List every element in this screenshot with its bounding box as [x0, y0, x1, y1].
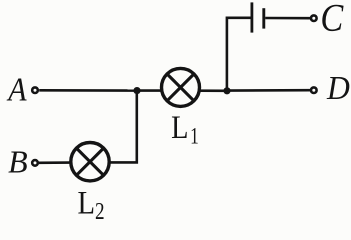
wire battery to C	[265, 17, 310, 20]
node junction2	[223, 87, 230, 94]
node B (terminal)	[32, 160, 38, 166]
node A (terminal)	[32, 87, 38, 93]
label C	[320, 0, 343, 39]
svg-text:1: 1	[190, 124, 199, 149]
svg-text:B: B	[8, 143, 28, 179]
svg-text:L: L	[171, 109, 188, 145]
wire junction2 to D	[227, 89, 310, 92]
node D (terminal)	[311, 87, 317, 93]
label D	[326, 70, 350, 107]
svg-text:L: L	[78, 184, 96, 221]
wire A to junction	[39, 89, 137, 92]
label L2	[78, 184, 96, 221]
node C (terminal)	[311, 15, 317, 21]
svg-text:2: 2	[95, 198, 105, 223]
label L1	[171, 109, 188, 145]
wire L1 to junction2	[199, 89, 227, 92]
label A	[6, 70, 27, 108]
lamp L1	[162, 68, 200, 106]
wire L2 to B	[39, 161, 70, 164]
svg-text:A: A	[6, 70, 27, 108]
svg-text:D: D	[326, 70, 350, 107]
wire junction1 to L1	[137, 89, 162, 92]
lamp L2	[71, 143, 109, 181]
battery long plate	[250, 2, 253, 32]
node junction1	[133, 87, 140, 94]
svg-text:C: C	[320, 0, 343, 39]
wire junction2 up to battery branch	[227, 18, 251, 91]
battery short plate	[262, 8, 265, 28]
wire junction1 down to corner and to L2	[111, 91, 137, 163]
